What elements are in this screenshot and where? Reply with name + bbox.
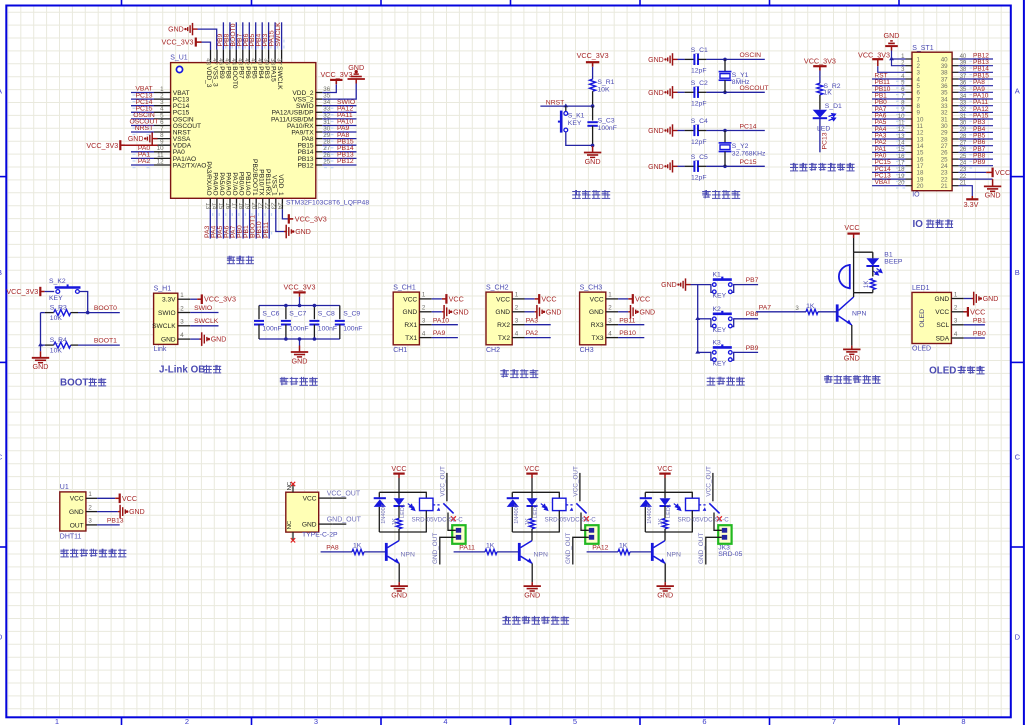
svg-text:VCC_OUT: VCC_OUT: [439, 466, 446, 497]
wire net PB13: [959, 65, 993, 67]
svg-text:S_K1: S_K1: [568, 112, 585, 119]
svg-text:S_CH2: S_CH2: [486, 285, 509, 292]
S_ST1 pin 12: [906, 131, 913, 133]
svg-text:IO: IO: [912, 192, 920, 199]
wire net PB0: [964, 337, 985, 339]
svg-text:2: 2: [180, 305, 184, 312]
wire net PA5: [872, 125, 906, 127]
S_H1 pin 3 SWCLK: [178, 325, 191, 327]
wire net PB11: [268, 209, 270, 238]
transistor Q3 NPN: [651, 543, 654, 561]
svg-text:NPN: NPN: [667, 552, 681, 559]
wire net PA11: [959, 105, 993, 107]
wire: [819, 71, 821, 84]
LED arrows: [873, 268, 882, 275]
wire: [819, 95, 821, 110]
svg-text:10K: 10K: [50, 315, 63, 322]
svg-text:SDA: SDA: [936, 335, 950, 342]
capacitor S_C8 100nF: [313, 306, 315, 320]
U1 pin 27 PB14: [316, 151, 323, 153]
wire top rail: [645, 491, 693, 493]
U1 pin 36 VDD_2: [316, 92, 323, 94]
svg-text:PA2/TX/AO: PA2/TX/AO: [173, 162, 207, 169]
wire net PB9: [734, 351, 758, 353]
S_ST1 pin 16: [906, 158, 913, 160]
power ground: [190, 338, 199, 340]
power VCC: [432, 298, 442, 300]
svg-text:VCC: VCC: [935, 309, 949, 316]
svg-text:A: A: [1015, 87, 1020, 96]
svg-text:PC15: PC15: [740, 159, 757, 166]
S_ST1 pin 13: [906, 138, 913, 140]
wire net OSCIN: [131, 118, 154, 120]
svg-text:PA4/AO: PA4/AO: [212, 172, 219, 195]
S_ST1 pin 3: [906, 71, 913, 73]
svg-text:SCL: SCL: [936, 322, 949, 329]
svg-text:2: 2: [422, 305, 426, 312]
svg-text:PA10: PA10: [433, 317, 449, 324]
svg-text:J-Link OB: J-Link OB: [159, 364, 205, 375]
wire net PA11: [322, 118, 356, 120]
wire net PA12: [959, 111, 993, 113]
svg-text:S_C5: S_C5: [691, 154, 708, 161]
wire net PB6: [248, 22, 250, 49]
resistor S_R3 10K: [54, 310, 71, 316]
ground: [843, 346, 860, 355]
wire: [45, 291, 55, 293]
wire: [40, 345, 42, 351]
svg-text:1K: 1K: [392, 518, 398, 525]
wire net GND_OUT: [332, 523, 346, 525]
S_ST1 pin 31: [952, 118, 959, 120]
svg-text:44: 44: [230, 58, 236, 65]
S_CH1 pin 2 GND: [419, 311, 431, 313]
svg-text:PB4: PB4: [257, 66, 264, 79]
U1 pin 43 PB7: [242, 50, 244, 63]
S_ST1 pin 4: [906, 78, 913, 80]
wire net VBAT: [872, 185, 906, 187]
svg-text:100nF: 100nF: [289, 325, 308, 332]
LED1 pin 3 SCL: [951, 324, 963, 326]
capacitor S_C2 12pF: [685, 91, 695, 93]
resistor 1K: [664, 506, 666, 518]
wire net PA6: [872, 118, 906, 120]
svg-text:PB10: PB10: [619, 330, 636, 337]
ground: [291, 346, 308, 357]
U1 pin 13 PA3/RX/AO: [209, 198, 211, 209]
svg-text:1: 1: [88, 491, 92, 498]
svg-text:PC13: PC13: [822, 132, 829, 149]
U1 pin 16 PA6/AO: [229, 198, 231, 209]
wire: [592, 67, 594, 79]
svg-text:S_D1: S_D1: [825, 103, 842, 110]
svg-text:13: 13: [204, 203, 210, 210]
svg-text:GND: GND: [348, 63, 364, 72]
svg-text:VCC_3V3: VCC_3V3: [162, 37, 194, 46]
svg-text:100nF: 100nF: [262, 325, 281, 332]
wire: [398, 563, 400, 582]
wire net PB0: [872, 105, 906, 107]
power GND at U1 pin35 VSS_2: [322, 84, 356, 100]
svg-text:LED1: LED1: [533, 504, 539, 518]
S_ST1 pin 23: [952, 171, 959, 173]
svg-text:VCC_3V3: VCC_3V3: [86, 141, 118, 150]
S_ST1 pin 15: [906, 151, 913, 153]
title temperature humidity module: [60, 549, 68, 557]
wire bottom node: [854, 292, 873, 294]
power 3.3V at pin 21: [959, 186, 973, 196]
wire bottom rail: [512, 531, 560, 533]
wire: [531, 478, 533, 492]
svg-text:22: 22: [263, 203, 269, 210]
power ground: [97, 511, 118, 513]
S_ST1 pin 39: [952, 65, 959, 67]
wire net BOOT1: [78, 344, 120, 346]
svg-text:KEY: KEY: [713, 293, 727, 300]
svg-text:PB7: PB7: [237, 66, 244, 79]
U1 pin 32 PA11/USB/DM: [316, 118, 323, 120]
svg-text:PB13: PB13: [107, 518, 124, 525]
svg-text:PA3: PA3: [526, 317, 539, 324]
svg-text:GND: GND: [844, 354, 860, 363]
svg-text:1K: 1K: [658, 518, 664, 525]
wire net PA3: [872, 138, 906, 140]
U1 pin 20 PB2/BOOT1: [255, 198, 257, 209]
svg-text:VCC_3V3: VCC_3V3: [858, 50, 890, 59]
svg-text:VCC: VCC: [303, 496, 317, 503]
svg-text:1: 1: [422, 292, 426, 299]
svg-text:SRD-05VDC-SL-C: SRD-05VDC-SL-C: [412, 517, 464, 524]
U1 pin 2 GND: [86, 511, 97, 513]
svg-text:PB3: PB3: [263, 66, 270, 79]
svg-text:GND_OUT: GND_OUT: [698, 533, 705, 564]
svg-text:VCC: VCC: [70, 496, 84, 503]
capacitor S_C6 100nF: [258, 306, 260, 320]
U1 pin 21 PB10/TX: [262, 198, 264, 209]
S_ST1 pin 20: [906, 185, 913, 187]
U1 pin 28 PB15: [316, 144, 323, 146]
svg-text:OSCOUT: OSCOUT: [740, 85, 769, 92]
junction: [723, 58, 727, 62]
wire net NRST: [540, 105, 592, 107]
svg-text:2: 2: [88, 504, 92, 511]
wire: [79, 292, 87, 313]
wire: [664, 478, 666, 492]
no-ERC cross: [717, 516, 722, 521]
power VCC: [97, 497, 115, 499]
title main chip: [227, 256, 235, 264]
svg-text:VDD_3: VDD_3: [205, 66, 212, 88]
wire net NRST: [131, 131, 154, 133]
svg-text:1: 1: [608, 292, 612, 299]
svg-text:VCC: VCC: [970, 307, 985, 316]
transistor Q1 NPN: [385, 543, 388, 561]
wire net PA8: [321, 551, 352, 553]
wire net SWCLK: [281, 22, 283, 49]
S_ST1 pin 38: [952, 71, 959, 73]
wire net PB15: [322, 144, 356, 146]
wire: [592, 144, 594, 147]
wire: [724, 152, 726, 167]
wire net PA3: [209, 209, 211, 238]
wire net PC14: [872, 171, 906, 173]
svg-text:BOOT1: BOOT1: [94, 337, 117, 344]
S_ST1 pin 1: [906, 58, 913, 60]
svg-text:3: 3: [954, 318, 958, 325]
svg-text:VCC: VCC: [541, 294, 556, 303]
relay switch: [433, 504, 442, 506]
ground: [584, 146, 601, 157]
svg-text:VCC: VCC: [635, 294, 650, 303]
sensor U1 DHT11 body: [60, 492, 86, 531]
svg-text:GND: GND: [211, 337, 227, 344]
svg-text:OLED: OLED: [929, 365, 956, 376]
svg-text:12pF: 12pF: [691, 101, 707, 108]
svg-text:OSCIN: OSCIN: [740, 52, 762, 59]
U1 pin 10 PA0: [154, 151, 171, 153]
svg-text:GND: GND: [589, 309, 604, 316]
wire net PB6: [959, 145, 993, 147]
wire: [448, 513, 456, 531]
svg-text:S_C3: S_C3: [598, 117, 615, 124]
wire net PA2: [872, 145, 906, 147]
U1 pin 7 NRST: [154, 131, 171, 133]
capacitor S_C7 100nF: [285, 306, 287, 320]
svg-text:VCC_3V3: VCC_3V3: [804, 56, 836, 65]
power VCC: [525, 298, 535, 300]
svg-text:100nF: 100nF: [598, 125, 617, 132]
svg-text:GND: GND: [884, 31, 900, 40]
wire net PB5: [959, 138, 993, 140]
terminal block JK3: [718, 525, 731, 544]
wire: [892, 51, 906, 60]
S_ST1 pin 24: [952, 165, 959, 167]
title reset circuit: [572, 190, 581, 198]
wire net PA12: [587, 551, 618, 553]
S_CH3 pin 1 VCC: [606, 298, 618, 300]
svg-text:7: 7: [832, 717, 836, 725]
capacitor S_C5 12pF: [685, 165, 695, 167]
svg-text:D: D: [1015, 633, 1021, 642]
S_ST1 pin 36: [952, 85, 959, 87]
wire net PA10: [432, 324, 458, 326]
push button K2 KEY: [711, 318, 734, 326]
svg-text:BOOT0: BOOT0: [231, 66, 238, 89]
svg-text:PB11: PB11: [263, 222, 270, 238]
svg-text:GND: GND: [585, 157, 601, 166]
S_ST1 pin 28: [952, 138, 959, 140]
svg-text:PB0/AO: PB0/AO: [238, 172, 245, 196]
svg-text:24: 24: [276, 203, 282, 210]
svg-text:GND: GND: [302, 522, 317, 529]
wire net PA9: [432, 337, 458, 339]
title OLED display: [929, 365, 985, 376]
base resistor 1K: [806, 309, 818, 314]
push button S_K2 KEY: [55, 286, 81, 289]
wire: [299, 339, 301, 346]
wire net PA10: [322, 125, 356, 127]
wire: [531, 563, 533, 582]
resistor 1K: [398, 506, 400, 518]
svg-text:SRD-05VDC-SL-C: SRD-05VDC-SL-C: [545, 517, 597, 524]
wire net PB12: [322, 164, 356, 166]
svg-text:2: 2: [515, 305, 519, 312]
title program indicator: [790, 163, 798, 171]
U1 pin 4 PC15: [154, 111, 171, 113]
wire: [851, 325, 853, 346]
wire GND_OUT: [440, 537, 456, 564]
wire net PB7: [242, 22, 244, 49]
svg-text:S_K2: S_K2: [49, 278, 66, 285]
svg-text:VCC_OUT: VCC_OUT: [572, 466, 579, 497]
wire net PB11: [872, 85, 906, 87]
U1 pin 14 PA4/AO: [216, 198, 218, 209]
S_CH2 pin 4 TX2: [512, 337, 524, 339]
resistor 1K vertical: [870, 279, 875, 290]
wire bottom rail: [645, 531, 693, 533]
svg-text:S_H1: S_H1: [154, 286, 172, 293]
wire net PA11: [454, 551, 485, 553]
svg-text:GND: GND: [161, 337, 176, 344]
push button K1 KEY: [711, 284, 734, 292]
wire: [878, 66, 906, 72]
svg-text:LED: LED: [817, 125, 830, 132]
svg-text:GND: GND: [648, 164, 664, 171]
svg-text:A: A: [0, 87, 2, 96]
S_ST1 pin 2: [906, 65, 913, 67]
svg-text:VCC_3V3: VCC_3V3: [577, 51, 609, 60]
svg-text:PA2: PA2: [526, 330, 539, 337]
U1 pin 46 PB9: [222, 50, 224, 63]
pin header S_ST1 body: [912, 52, 952, 191]
svg-text:OUT: OUT: [70, 522, 84, 529]
power VCC_3V3 at U1 pin36 VDD_2: [322, 84, 336, 92]
wire net PA0: [872, 158, 906, 160]
U1 pin 8 VSSA: [154, 138, 171, 140]
wire net PB5: [255, 22, 257, 49]
S_ST1 pin 10: [906, 118, 913, 120]
wire: [398, 478, 400, 492]
svg-text:1K: 1K: [806, 303, 815, 310]
diode D3 1N4007: [644, 492, 646, 498]
svg-text:S_CH1: S_CH1: [393, 285, 416, 292]
LED arrows: [674, 504, 681, 511]
svg-text:CH1: CH1: [393, 347, 407, 354]
wire net PC13: [131, 98, 154, 100]
resistor S_R1 10K: [590, 79, 596, 91]
svg-text:4: 4: [954, 331, 958, 338]
LED arrows: [541, 504, 548, 511]
wire: [664, 563, 666, 582]
title relay control circuit: [502, 616, 511, 624]
svg-text:PA11: PA11: [459, 544, 475, 551]
svg-text:12pF: 12pF: [691, 68, 707, 75]
TYPE-C pin VCC: [319, 497, 333, 499]
svg-text:PB12: PB12: [297, 162, 313, 169]
svg-text:PB11/RX: PB11/RX: [264, 169, 271, 196]
S_ST1 pin 33: [952, 105, 959, 107]
wire net PA3: [525, 324, 551, 326]
wire net PB14: [322, 151, 356, 153]
title crystal circuit: [702, 190, 711, 198]
S_ST1 pin 14: [906, 145, 913, 147]
junction: [723, 129, 727, 133]
svg-text:3: 3: [422, 318, 426, 325]
push button K3 KEY: [711, 352, 734, 360]
svg-text:CH3: CH3: [580, 347, 594, 354]
U1 pin 3 PC14: [154, 105, 171, 107]
wire net PB13: [97, 524, 120, 526]
svg-text:21: 21: [257, 203, 263, 210]
wire net PB8: [959, 158, 993, 160]
svg-text:GND: GND: [129, 509, 145, 516]
wire net PA7: [756, 311, 806, 313]
svg-text:STM32F103C8T6_LQFP48: STM32F103C8T6_LQFP48: [286, 199, 369, 206]
U1 pin 44 BOOT0: [235, 50, 237, 63]
svg-text:S_R1: S_R1: [597, 79, 614, 86]
power GND at U1 pin47 VSS_3: [198, 29, 217, 49]
svg-text:SWCLK: SWCLK: [152, 323, 176, 330]
svg-text:1: 1: [515, 292, 519, 299]
svg-text:GND: GND: [657, 590, 673, 599]
U1 pin 41 PB5: [255, 50, 257, 63]
svg-text:LED1: LED1: [666, 504, 672, 518]
power GND at U1 pin8 VSSA: [156, 138, 158, 140]
U1 pin 29 PA8: [316, 138, 323, 140]
capacitor S_C3 100nF: [587, 121, 597, 123]
U1 pin 6 OSCOUT: [154, 125, 171, 127]
power ground: [618, 311, 628, 313]
wire: [566, 132, 593, 146]
U1 pin 5 OSCIN: [154, 118, 171, 120]
svg-text:GND: GND: [403, 309, 418, 316]
title BOOT: [60, 377, 106, 388]
svg-text:1: 1: [954, 291, 958, 298]
S_ST1 pin 40: [952, 58, 959, 60]
wire net PA10: [959, 98, 993, 100]
wire: [872, 252, 874, 258]
svg-text:B1: B1: [884, 251, 893, 258]
S_ST1 pin 27: [952, 145, 959, 147]
TYPE-C pin GND: [319, 523, 333, 525]
S_ST1 pin 26: [952, 151, 959, 153]
wire: [724, 59, 726, 71]
svg-text:KEY: KEY: [49, 295, 63, 302]
wire net PA7: [872, 111, 906, 113]
no-ERC cross: [451, 516, 456, 521]
svg-text:4: 4: [180, 332, 184, 339]
svg-text:2: 2: [185, 717, 189, 725]
terminal block JK2: [585, 525, 598, 544]
crystal S_Y2 32.768KHz: [719, 142, 732, 144]
svg-text:1: 1: [55, 717, 59, 725]
power ground keys: [681, 278, 691, 290]
svg-text:GND_OUT: GND_OUT: [565, 533, 572, 564]
S_ST1 pin 17: [906, 165, 913, 167]
svg-text:VCC_3V3: VCC_3V3: [284, 282, 316, 291]
svg-text:PA7: PA7: [759, 305, 772, 312]
svg-text:GND: GND: [391, 590, 407, 599]
wire: [853, 238, 855, 252]
svg-text:VCC: VCC: [995, 168, 1010, 177]
svg-text:NRST: NRST: [135, 125, 154, 132]
wire net PB7: [959, 151, 993, 153]
LED: [664, 492, 666, 498]
U1 pin-1 mark circle: [176, 66, 182, 72]
push button S_K1 KEY: [560, 111, 563, 133]
svg-text:3: 3: [180, 319, 184, 326]
svg-text:PA8: PA8: [326, 544, 339, 551]
